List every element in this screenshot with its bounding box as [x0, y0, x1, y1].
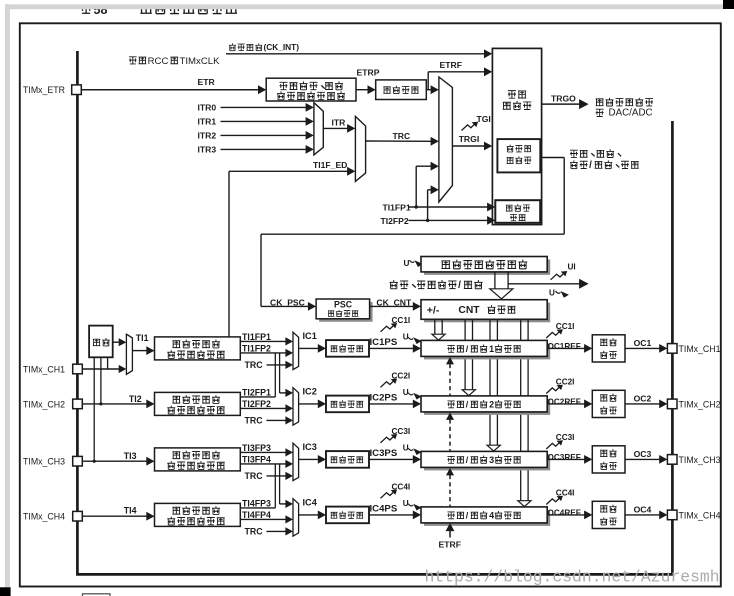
wire ETRF into CCR4 bottom: [449, 530, 451, 537]
svg-text:ITR1: ITR1: [198, 117, 217, 127]
svg-text:TRC: TRC: [245, 471, 264, 481]
svg-text:OC2REF: OC2REF: [548, 398, 581, 407]
wire IC4: [299, 514, 319, 516]
block: PSC prescaler: [319, 302, 373, 322]
mux: ITR selector: [314, 103, 323, 155]
wire IC3: [299, 458, 319, 460]
block: capture/compare register 4: [424, 510, 550, 526]
hollow arrow shaft CNT to CCR2: [464, 320, 466, 391]
svg-text:TI1: TI1: [136, 333, 149, 343]
wire OC1REF: [547, 347, 585, 349]
svg-text:U: U: [403, 443, 409, 452]
screenshot gray top bar: [5, 4, 727, 9]
pin square TIMx_CH3 (right): [667, 455, 677, 465]
mux: TRGI selector (tall trapezoid): [439, 77, 453, 202]
block: output control ch4: [592, 501, 625, 528]
mux: IC4 input select: [293, 499, 299, 536]
svg-text:TI3: TI3: [124, 451, 137, 461]
svg-text:IC4: IC4: [303, 497, 318, 507]
svg-text:CK_PSC: CK_PSC: [270, 298, 305, 308]
pin square TIMx_CH4 (right): [667, 510, 677, 520]
mux: TRC selector: [355, 116, 365, 181]
wire IC1PS: [369, 347, 414, 349]
svg-text:TI1FP1: TI1FP1: [383, 202, 411, 212]
wire TI1FP1 into encoder interface: [409, 206, 489, 208]
pin square TIMx_CH1 (right): [667, 344, 677, 354]
svg-text:TIMx_CH2: TIMx_CH2: [23, 399, 65, 409]
wire OC3REF: [547, 458, 585, 460]
svg-text:U: U: [403, 499, 409, 508]
svg-text:(CK_INT): (CK_INT): [264, 42, 300, 52]
block: prescaler ch4: [326, 507, 369, 524]
wire OC3: [625, 458, 660, 460]
svg-text:PSC: PSC: [334, 300, 353, 310]
svg-text:OC1REF: OC1REF: [548, 342, 581, 351]
wires cross-coupling FP signals between channel pair: [274, 353, 276, 397]
wire CH3 into filter ch3: [82, 460, 147, 462]
wire ETRP: [356, 89, 369, 91]
wire TI2FP2 into encoder interface: [409, 219, 489, 221]
wire IC1: [299, 347, 319, 349]
svg-text:3: 3: [489, 455, 494, 465]
svg-text:TI2FP2: TI2FP2: [381, 216, 409, 226]
wire CH2 into filter ch2: [82, 403, 147, 405]
wire OC4REF: [547, 514, 585, 516]
svg-text:1: 1: [489, 344, 494, 354]
svg-text:TI1FP2: TI1FP2: [242, 343, 271, 353]
mux: TI1 source select: [126, 334, 132, 374]
bus bottom line: [76, 573, 674, 576]
label: internal clock CK_INT: [229, 43, 236, 50]
svg-text:IC1: IC1: [303, 331, 317, 341]
text: reset, enable, up/down, count: [570, 150, 578, 157]
svg-text:TGI: TGI: [477, 114, 491, 124]
pin square TIMx_CH3 (left): [73, 456, 83, 466]
wire TI2FP2: [240, 407, 286, 409]
wire TI3FP4: [240, 463, 286, 465]
wire OC2REF: [547, 403, 585, 405]
svg-text:UI: UI: [568, 263, 576, 272]
wire TI1FP1: [240, 340, 286, 342]
wire TRGI: [452, 145, 485, 147]
block: CNT counter: [424, 303, 550, 323]
pin square TIMx_CH2 (left): [73, 399, 83, 409]
block: polarity select / edge detect & prescaler: [266, 78, 356, 101]
svg-text:IC2PS: IC2PS: [370, 393, 398, 404]
block: prescaler ch1: [326, 340, 369, 357]
hollow arrowhead into CCR4: [518, 501, 531, 507]
wire IC2PS: [369, 403, 414, 405]
svg-text:https://blog.csdn.net/Azuresmh: https://blog.csdn.net/Azuresmh: [425, 568, 720, 587]
block: prescaler ch2: [326, 396, 369, 413]
svg-text:DAC/ADC: DAC/ADC: [609, 108, 653, 119]
svg-text:OC1: OC1: [634, 338, 652, 348]
svg-text:TI2FP2: TI2FP2: [242, 399, 271, 409]
svg-text:CK_CNT: CK_CNT: [376, 297, 412, 307]
svg-text:OC3: OC3: [634, 449, 652, 459]
svg-text:TI2: TI2: [129, 394, 142, 404]
text: stop, clear or up/down: [390, 280, 398, 289]
wire TRGO out: [542, 103, 581, 105]
svg-text:CNT: CNT: [458, 305, 480, 316]
svg-text:TI2FP1: TI2FP1: [242, 387, 271, 397]
svg-text:IC1PS: IC1PS: [370, 337, 398, 348]
svg-text:TIMx_CH4: TIMx_CH4: [679, 511, 721, 521]
wire TI4FP4: [240, 518, 286, 520]
block: capture/compare register 3: [424, 454, 550, 470]
svg-text:IC3: IC3: [303, 442, 317, 452]
svg-text:TI4FP4: TI4FP4: [242, 510, 271, 520]
wires XOR inputs from CH1/CH2/CH3: [107, 357, 109, 369]
wire TI3FP3: [240, 451, 286, 453]
svg-text:TIMx_CH3: TIMx_CH3: [23, 457, 65, 467]
wire TRC to TRGI mux: [366, 140, 432, 142]
svg-text:TI1FP1: TI1FP1: [242, 332, 271, 342]
wire TI2FP1: [240, 396, 275, 398]
svg-text:TI3FP3: TI3FP3: [242, 443, 271, 453]
mux: IC1 input select: [293, 332, 299, 369]
svg-text:U: U: [403, 388, 409, 397]
svg-text:TI4FP3: TI4FP3: [242, 498, 271, 508]
svg-text:ETRP: ETRP: [357, 68, 380, 78]
svg-text:OC2: OC2: [634, 394, 652, 404]
svg-text:2: 2: [489, 400, 494, 410]
black corner bottom-left: [0, 587, 11, 596]
svg-text:IC3PS: IC3PS: [370, 448, 398, 459]
svg-text:ITR2: ITR2: [198, 131, 217, 141]
pin square TIMx_CH4 (left): [73, 511, 83, 521]
hollow arrow shaft CNT to CCR4: [520, 320, 522, 502]
block: encoder interface: [495, 200, 540, 223]
block: auto-reload register ARR: [424, 260, 550, 275]
svg-text:OC3REF: OC3REF: [548, 453, 581, 462]
svg-text:ETR: ETR: [198, 77, 216, 87]
svg-text:TIMx_ETR: TIMx_ETR: [23, 85, 65, 95]
screenshot gray left bar: [5, 4, 10, 587]
wire ITR out: [323, 127, 348, 129]
svg-text:TI4: TI4: [124, 505, 137, 515]
wire OC2: [625, 403, 660, 405]
block: capture/compare register 1: [424, 343, 550, 359]
svg-text:TRC: TRC: [245, 416, 264, 426]
pin square TIMx_ETR: [72, 85, 82, 95]
black corner top-right: [723, 0, 734, 9]
main right bus line: [671, 121, 674, 574]
dashed event arrow up into CCR1: [449, 364, 451, 396]
block: input filter & edge detector ch1: [155, 337, 241, 360]
svg-text:TIMxCLK: TIMxCLK: [180, 56, 221, 67]
hollow arrowhead into CCR2: [462, 390, 475, 396]
svg-text:RCC: RCC: [148, 56, 169, 67]
label: from RCC TIMxCLK: [129, 57, 137, 64]
svg-text:ITR: ITR: [332, 118, 347, 128]
svg-text:IC4PS: IC4PS: [370, 504, 398, 515]
mux: IC3 input select: [293, 443, 299, 480]
svg-text:4: 4: [489, 511, 494, 521]
wire UI event out: [508, 283, 579, 285]
main left bus line: [76, 51, 79, 574]
wire TI1 into filter ch1: [132, 350, 147, 352]
hollow arrowhead into CCR3: [487, 445, 500, 451]
block: input filter & edge detector ch3: [155, 448, 241, 471]
block: output control ch2: [592, 390, 625, 417]
svg-text:/: /: [589, 160, 592, 171]
hollow arrow shaft CNT to CCR3: [489, 320, 491, 446]
block: XOR (yihuo): [89, 326, 113, 358]
wire TI1FP1 branch up into TRGI mux: [415, 166, 417, 207]
hollow arrow ARR to CNT: [494, 272, 496, 289]
wire IC3PS: [369, 458, 414, 460]
wire TI4FP3: [240, 507, 275, 509]
wire CK_INT to trigger controller: [226, 53, 485, 55]
block: input filter (ETR): [376, 80, 427, 100]
wire IC4PS: [369, 514, 414, 516]
svg-text:OC4REF: OC4REF: [548, 509, 581, 518]
svg-text:TI1F_ED: TI1F_ED: [313, 160, 347, 170]
block: prescaler ch3: [326, 451, 369, 468]
wire slave ctrl out, wraps to CK_PSC: [540, 157, 564, 159]
dashed event arrow up into CCR2: [449, 419, 451, 451]
svg-text:ITR0: ITR0: [198, 103, 217, 113]
pin square TIMx_CH2 (right): [667, 399, 677, 409]
svg-text:TIMx_CH4: TIMx_CH4: [23, 512, 65, 522]
svg-text:TRC: TRC: [245, 360, 264, 370]
svg-text:IC2: IC2: [303, 386, 317, 396]
partial small box at bottom edge: [83, 594, 111, 596]
hollow arrowhead into CCR1: [432, 334, 445, 340]
block: input filter & edge detector ch2: [155, 392, 241, 415]
block: output control ch3: [592, 446, 625, 473]
wire XOR out to TI1 mux: [113, 341, 120, 343]
svg-text:TIMx_CH3: TIMx_CH3: [679, 455, 721, 465]
svg-text:ITR3: ITR3: [198, 145, 217, 155]
wire ETRF up and to trigger controller: [427, 72, 429, 90]
svg-text:TIMx_CH2: TIMx_CH2: [679, 400, 721, 410]
hollow arrow shaft CNT to CCR1: [434, 320, 436, 335]
svg-text:TIMx_CH1: TIMx_CH1: [679, 344, 721, 354]
wire ETR from pin to polarity box: [81, 89, 259, 91]
block: slave mode controller: [497, 139, 540, 172]
svg-text:TRGI: TRGI: [459, 134, 480, 144]
wire TI2FP2 branch up into TRGI mux: [427, 190, 429, 221]
block: output control ch1: [592, 335, 625, 362]
event zigzag TGI: [462, 123, 476, 130]
wire TI1FP2: [240, 352, 286, 354]
pin square TIMx_CH1 (left): [73, 364, 83, 374]
wire OC1: [625, 347, 660, 349]
svg-text:TRC: TRC: [245, 527, 264, 537]
svg-text:ETRF: ETRF: [440, 60, 462, 70]
svg-text:U: U: [549, 288, 555, 297]
svg-text:TIMx_CH1: TIMx_CH1: [23, 365, 65, 375]
block: capture/compare register 2: [424, 399, 550, 415]
block: trigger controller: [492, 48, 541, 224]
wire CH1 to TI1 mux (lower input): [82, 368, 119, 370]
svg-text:TRGO: TRGO: [551, 93, 576, 103]
wire TI1F_ED (from ch1 filter top): [228, 171, 230, 336]
wire OC4: [625, 514, 660, 516]
dashed event arrow up into CCR3: [449, 475, 451, 507]
svg-text:OC4: OC4: [634, 505, 652, 515]
block: input filter & edge detector ch4: [155, 503, 241, 526]
svg-text:TRC: TRC: [393, 131, 411, 141]
svg-text:+/-: +/-: [427, 304, 440, 316]
wire CK_CNT: [370, 305, 414, 307]
text: to other timers / to DAC/ADC: [596, 99, 604, 106]
wire filter to TRGI mux: [426, 89, 431, 91]
svg-text:U: U: [404, 259, 410, 268]
wires cross-coupling FP signals between channel pair: [274, 464, 276, 508]
svg-text:/: /: [458, 280, 461, 291]
svg-text:ETRF: ETRF: [439, 539, 461, 549]
wire CH4 into filter ch4: [82, 515, 147, 517]
wire IC2: [299, 403, 319, 405]
svg-text:U: U: [403, 332, 409, 341]
svg-text:TI3FP4: TI3FP4: [242, 454, 271, 464]
mux: IC2 input select: [293, 388, 299, 425]
